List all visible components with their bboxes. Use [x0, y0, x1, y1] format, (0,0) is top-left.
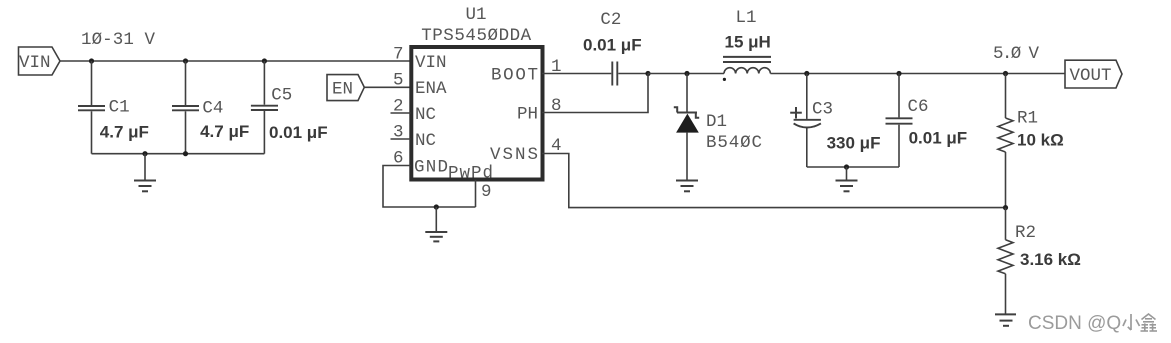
capacitor C2 [583, 10, 642, 86]
svg-text:7: 7 [393, 45, 404, 65]
svg-text:L1: L1 [735, 8, 756, 28]
svg-text:5: 5 [393, 71, 404, 91]
svg-text:C3: C3 [812, 100, 833, 120]
svg-text:PH: PH [517, 104, 538, 124]
svg-text:5.Ø V: 5.Ø V [993, 44, 1039, 64]
svg-text:TPS545ØDDA: TPS545ØDDA [421, 26, 531, 46]
net label VIN [19, 47, 61, 75]
node feedback junction [1003, 205, 1008, 210]
svg-text:330 μF: 330 μF [827, 134, 881, 153]
svg-text:VIN: VIN [19, 53, 51, 73]
wire VSNS feedback [542, 154, 1006, 208]
node IC ground junction [434, 204, 439, 209]
node gnd tap [142, 151, 147, 156]
svg-text:U1: U1 [465, 5, 486, 25]
inductor L1 15uH [723, 8, 771, 81]
svg-text:B54ØC: B54ØC [706, 133, 762, 153]
wire EN to pin 5 [364, 86, 410, 88]
svg-text:R2: R2 [1015, 223, 1036, 243]
node C6 top [896, 71, 901, 76]
wire BOOT to C2 [542, 73, 611, 75]
svg-text:0.01 μF: 0.01 μF [909, 129, 968, 148]
node VIN/C1 [89, 58, 94, 63]
wire input-cap ground bus [92, 153, 265, 155]
svg-text:C4: C4 [202, 99, 223, 119]
svg-text:0.01 μF: 0.01 μF [583, 36, 642, 55]
svg-text:C2: C2 [600, 10, 621, 30]
capacitor C6 [886, 74, 968, 168]
node C3 top [804, 71, 809, 76]
wire PH rail to L1 [648, 73, 724, 75]
svg-text:4.7 μF: 4.7 μF [100, 123, 149, 142]
net label EN [327, 75, 364, 101]
pin number 3 + stub [391, 123, 411, 143]
svg-text:R1: R1 [1017, 109, 1038, 129]
capacitor C5 [251, 61, 328, 154]
svg-text:NC: NC [415, 131, 436, 151]
IC U1 TPS5450DDA [411, 5, 542, 184]
net label VOUT [1065, 60, 1122, 88]
node C5 top [262, 58, 267, 63]
wire L1 to VOUT [770, 73, 1065, 75]
svg-text:C6: C6 [908, 97, 929, 117]
node D1 [684, 71, 689, 76]
ground (IC) [425, 207, 447, 241]
wire C2 to PH node [618, 73, 648, 75]
ground (D1) [676, 181, 698, 192]
svg-text:9: 9 [481, 182, 492, 202]
resistor R2 3.16k [998, 208, 1081, 314]
svg-text:4.7 μF: 4.7 μF [200, 122, 249, 141]
capacitor C4 [172, 61, 249, 154]
svg-text:GND: GND [414, 158, 448, 178]
wire PH pin connection [542, 74, 648, 113]
wire pin 9 stub [475, 180, 477, 207]
svg-text:CSDN @Q: CSDN @Q [1028, 313, 1121, 334]
ground (output caps) [836, 167, 858, 191]
wire VIN rail [60, 60, 411, 62]
wire output-cap ground bus [807, 166, 899, 168]
svg-text:D1: D1 [706, 112, 727, 132]
wire pin 6 GND loop [383, 166, 476, 208]
capacitor C1 [78, 61, 149, 154]
svg-text:1Ø-31 V: 1Ø-31 V [81, 30, 155, 50]
diode D1 B540C [674, 74, 762, 181]
watermark glyph xiao [1123, 314, 1140, 330]
ground (input caps) [134, 154, 156, 192]
svg-text:0.01 μF: 0.01 μF [269, 123, 328, 142]
svg-text:EN: EN [332, 79, 353, 99]
svg-text:VIN: VIN [415, 53, 447, 73]
node output gnd tap [844, 164, 849, 169]
svg-text:C5: C5 [271, 86, 292, 106]
node BOOT cap / PH [645, 71, 650, 76]
svg-text:10 kΩ: 10 kΩ [1017, 131, 1064, 150]
node R1/VOUT [1003, 71, 1008, 76]
svg-text:ENA: ENA [415, 79, 447, 99]
capacitor C3 330uF polarized [790, 74, 880, 168]
node C4 top [183, 58, 188, 63]
svg-text:PwPd: PwPd [448, 164, 493, 184]
svg-text:VOUT: VOUT [1069, 66, 1111, 86]
svg-text:3.16 kΩ: 3.16 kΩ [1020, 250, 1081, 269]
svg-text:C1: C1 [109, 98, 130, 118]
pin number 2 + stub [391, 97, 411, 117]
watermark glyph xin [1141, 314, 1158, 331]
node C4 bottom [183, 151, 188, 156]
ground (R2) [995, 314, 1016, 325]
svg-text:BOOT: BOOT [491, 65, 538, 85]
svg-text:VSNS: VSNS [490, 145, 538, 165]
resistor R1 10k [998, 74, 1064, 208]
svg-text:15 μH: 15 μH [725, 33, 771, 52]
svg-text:NC: NC [415, 105, 436, 125]
